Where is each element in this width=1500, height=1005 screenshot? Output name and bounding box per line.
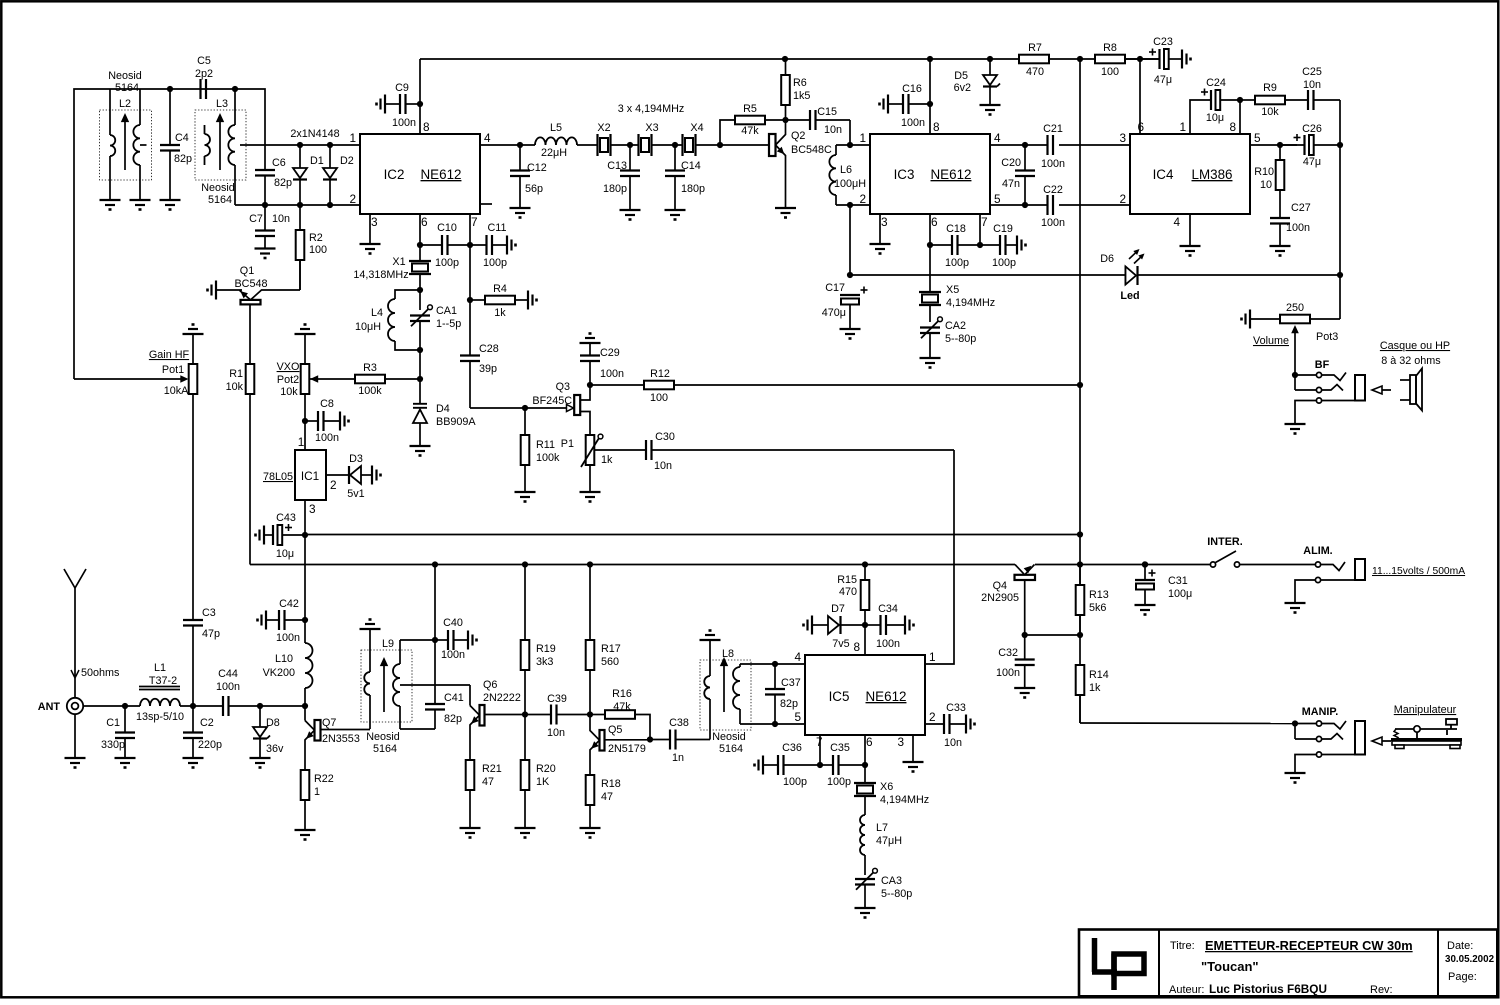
svg-text:C20: C20: [1001, 157, 1021, 169]
svg-text:56p: 56p: [525, 183, 543, 195]
svg-text:4,194MHz: 4,194MHz: [946, 297, 995, 309]
svg-text:R4: R4: [493, 283, 507, 295]
svg-text:560: 560: [601, 656, 619, 668]
svg-text:C9: C9: [395, 82, 409, 94]
svg-text:C40: C40: [443, 617, 463, 629]
svg-text:1: 1: [929, 650, 936, 664]
svg-text:100p: 100p: [483, 257, 507, 269]
svg-text:5164: 5164: [373, 743, 397, 755]
svg-text:100p: 100p: [435, 257, 459, 269]
svg-text:L4: L4: [371, 307, 383, 319]
svg-text:7: 7: [816, 735, 823, 749]
svg-text:L9: L9: [382, 638, 394, 650]
svg-text:C28: C28: [479, 343, 499, 355]
svg-text:5: 5: [794, 710, 801, 724]
svg-text:47μ: 47μ: [1154, 74, 1172, 86]
svg-text:Led: Led: [1120, 290, 1139, 302]
svg-text:C7: C7: [249, 213, 263, 225]
svg-text:C34: C34: [878, 603, 898, 615]
svg-text:4: 4: [994, 131, 1001, 145]
svg-text:10μ: 10μ: [1206, 112, 1224, 124]
svg-text:C39: C39: [547, 693, 567, 705]
svg-text:2: 2: [1119, 192, 1126, 206]
svg-text:CA2: CA2: [945, 320, 966, 332]
svg-text:47: 47: [601, 791, 613, 803]
svg-text:C31: C31: [1168, 575, 1188, 587]
svg-text:C24: C24: [1206, 77, 1226, 89]
svg-text:C19: C19: [993, 223, 1013, 235]
svg-text:5164: 5164: [208, 194, 232, 206]
svg-text:2N2905: 2N2905: [981, 592, 1019, 604]
svg-text:R6: R6: [793, 77, 807, 89]
svg-text:100p: 100p: [945, 257, 969, 269]
svg-text:2N3553: 2N3553: [322, 733, 360, 745]
svg-text:6: 6: [931, 215, 938, 229]
svg-text:T37-2: T37-2: [149, 675, 177, 687]
svg-text:L2: L2: [119, 98, 131, 110]
svg-text:C32: C32: [998, 647, 1018, 659]
svg-text:6v2: 6v2: [954, 82, 971, 94]
svg-text:2N2222: 2N2222: [483, 692, 521, 704]
svg-text:3k3: 3k3: [536, 656, 553, 668]
svg-text:8 à 32 ohms: 8 à 32 ohms: [1381, 355, 1441, 367]
svg-text:Neosid: Neosid: [201, 182, 235, 194]
svg-text:50ohms: 50ohms: [81, 667, 120, 679]
svg-text:3: 3: [881, 215, 888, 229]
svg-text:1: 1: [298, 435, 305, 449]
svg-text:C21: C21: [1043, 123, 1063, 135]
svg-text:C18: C18: [946, 223, 966, 235]
svg-text:36v: 36v: [266, 743, 284, 755]
svg-text:D7: D7: [831, 603, 845, 615]
svg-text:C23: C23: [1153, 36, 1173, 48]
svg-text:R9: R9: [1263, 82, 1277, 94]
svg-text:2x1N4148: 2x1N4148: [290, 128, 339, 140]
svg-text:100: 100: [1101, 66, 1119, 78]
svg-text:C26: C26: [1302, 123, 1322, 135]
svg-text:82p: 82p: [274, 177, 292, 189]
svg-text:Date:: Date:: [1447, 940, 1473, 952]
svg-text:8: 8: [423, 120, 430, 134]
svg-text:C43: C43: [276, 512, 296, 524]
svg-text:470: 470: [839, 586, 857, 598]
svg-text:100: 100: [309, 244, 327, 256]
svg-text:47μ: 47μ: [1303, 156, 1321, 168]
svg-text:1--5p: 1--5p: [436, 318, 461, 330]
svg-text:Neosid: Neosid: [108, 70, 142, 82]
svg-text:100k: 100k: [536, 452, 560, 464]
svg-text:Titre:: Titre:: [1170, 940, 1195, 952]
svg-text:C25: C25: [1302, 66, 1322, 78]
svg-text:C6: C6: [272, 157, 286, 169]
svg-text:Q1: Q1: [240, 265, 254, 277]
svg-text:7: 7: [471, 215, 478, 229]
svg-text:Q3: Q3: [556, 381, 570, 393]
svg-text:Page:: Page:: [1448, 971, 1477, 983]
svg-text:Q2: Q2: [791, 130, 805, 142]
svg-text:C30: C30: [655, 431, 675, 443]
svg-text:INTER.: INTER.: [1207, 536, 1242, 548]
svg-text:4: 4: [794, 650, 801, 664]
svg-text:Manipulateur: Manipulateur: [1394, 704, 1457, 716]
svg-text:VXO: VXO: [277, 361, 300, 373]
svg-text:10k: 10k: [280, 386, 298, 398]
svg-text:1: 1: [1179, 120, 1186, 134]
svg-text:10n: 10n: [824, 124, 842, 136]
svg-text:2: 2: [330, 478, 337, 492]
svg-text:Q6: Q6: [483, 679, 497, 691]
svg-text:IC4: IC4: [1153, 167, 1174, 182]
svg-text:C16: C16: [902, 83, 922, 95]
svg-text:100n: 100n: [1041, 158, 1065, 170]
svg-text:5: 5: [1254, 131, 1261, 145]
svg-text:NE612: NE612: [421, 167, 462, 182]
svg-text:3: 3: [897, 735, 904, 749]
svg-text:180p: 180p: [681, 183, 705, 195]
svg-text:6: 6: [866, 735, 873, 749]
svg-text:D4: D4: [436, 403, 450, 415]
svg-text:C13: C13: [607, 160, 627, 172]
svg-text:1k: 1k: [1089, 682, 1101, 694]
svg-text:Pot2: Pot2: [277, 374, 299, 386]
svg-text:82p: 82p: [174, 153, 192, 165]
svg-text:R12: R12: [650, 368, 670, 380]
svg-text:30.05.2002: 30.05.2002: [1445, 954, 1495, 965]
svg-text:C36: C36: [782, 742, 802, 754]
svg-text:BF: BF: [1315, 359, 1330, 371]
svg-text:NE612: NE612: [866, 689, 907, 704]
svg-text:8: 8: [933, 120, 940, 134]
svg-text:Rev:: Rev:: [1370, 984, 1393, 996]
svg-text:C44: C44: [218, 668, 238, 680]
svg-text:R18: R18: [601, 778, 621, 790]
svg-text:IC2: IC2: [384, 167, 405, 182]
svg-text:C22: C22: [1043, 184, 1063, 196]
svg-text:X1: X1: [392, 256, 405, 268]
svg-text:R10: R10: [1254, 166, 1274, 178]
svg-text:ANT: ANT: [38, 701, 61, 713]
svg-text:47p: 47p: [202, 628, 220, 640]
svg-text:3: 3: [1119, 131, 1126, 145]
svg-text:2N5179: 2N5179: [608, 743, 646, 755]
svg-text:C5: C5: [197, 55, 211, 67]
svg-text:X6: X6: [880, 781, 893, 793]
svg-text:47: 47: [482, 776, 494, 788]
svg-text:8: 8: [1229, 120, 1236, 134]
svg-text:47μH: 47μH: [876, 835, 902, 847]
svg-text:D3: D3: [349, 453, 363, 465]
svg-text:C14: C14: [681, 160, 701, 172]
svg-text:1n: 1n: [672, 752, 684, 764]
svg-text:EMETTEUR-RECEPTEUR CW 30m: EMETTEUR-RECEPTEUR CW 30m: [1205, 938, 1413, 953]
svg-text:R17: R17: [601, 643, 621, 655]
svg-text:10n: 10n: [547, 727, 565, 739]
svg-text:D6: D6: [1100, 253, 1114, 265]
svg-text:R8: R8: [1103, 42, 1117, 54]
svg-text:L6: L6: [840, 164, 852, 176]
svg-text:100n: 100n: [876, 638, 900, 650]
svg-text:R13: R13: [1089, 589, 1109, 601]
svg-text:C29: C29: [600, 347, 620, 359]
svg-text:10kA: 10kA: [164, 385, 189, 397]
svg-text:5v1: 5v1: [347, 488, 364, 500]
svg-text:Volume: Volume: [1253, 335, 1289, 347]
svg-text:10μH: 10μH: [355, 321, 381, 333]
svg-text:10n: 10n: [272, 213, 290, 225]
svg-text:470: 470: [1026, 66, 1044, 78]
svg-text:C35: C35: [830, 742, 850, 754]
svg-text:100n: 100n: [901, 117, 925, 129]
svg-text:Pot1: Pot1: [162, 364, 184, 376]
svg-text:220p: 220p: [198, 739, 222, 751]
svg-text:C11: C11: [487, 222, 506, 234]
svg-text:82p: 82p: [780, 698, 798, 710]
svg-text:100n: 100n: [1041, 217, 1065, 229]
svg-text:14,318MHz: 14,318MHz: [353, 269, 408, 281]
svg-text:100n: 100n: [315, 432, 339, 444]
svg-text:R15: R15: [837, 574, 857, 586]
svg-text:R5: R5: [743, 103, 757, 115]
svg-text:2: 2: [859, 192, 866, 206]
svg-text:100n: 100n: [1286, 222, 1310, 234]
svg-text:L3: L3: [216, 98, 228, 110]
svg-text:13sp-5/10: 13sp-5/10: [136, 711, 184, 723]
svg-text:100p: 100p: [783, 776, 807, 788]
svg-text:1: 1: [859, 131, 866, 145]
svg-text:2: 2: [929, 710, 936, 724]
svg-text:47k: 47k: [613, 701, 631, 713]
svg-text:2: 2: [349, 192, 356, 206]
svg-text:10n: 10n: [654, 460, 672, 472]
svg-text:6: 6: [1137, 120, 1144, 134]
svg-text:100n: 100n: [276, 632, 300, 644]
svg-text:Q4: Q4: [993, 580, 1007, 592]
svg-text:47k: 47k: [741, 125, 759, 137]
svg-text:L7: L7: [876, 822, 888, 834]
svg-text:Auteur:: Auteur:: [1169, 984, 1204, 996]
svg-text:C41: C41: [444, 692, 464, 704]
svg-text:5k6: 5k6: [1089, 602, 1106, 614]
svg-text:180p: 180p: [603, 183, 627, 195]
svg-text:MANIP.: MANIP.: [1302, 706, 1338, 718]
svg-text:250: 250: [1286, 302, 1304, 314]
svg-text:100n: 100n: [600, 368, 624, 380]
svg-text:5--80p: 5--80p: [945, 333, 976, 345]
svg-text:5: 5: [994, 192, 1001, 206]
svg-text:Pot3: Pot3: [1316, 331, 1338, 343]
svg-text:L10: L10: [275, 653, 293, 665]
svg-text:100p: 100p: [827, 776, 851, 788]
svg-text:100k: 100k: [358, 385, 382, 397]
svg-text:5164: 5164: [719, 743, 743, 755]
svg-text:BC548: BC548: [234, 278, 267, 290]
svg-text:330p: 330p: [101, 739, 125, 751]
svg-text:P1: P1: [561, 438, 574, 450]
svg-text:8: 8: [853, 640, 860, 654]
svg-text:R7: R7: [1028, 42, 1042, 54]
svg-text:3: 3: [309, 502, 316, 516]
svg-text:R16: R16: [612, 688, 632, 700]
svg-text:R1: R1: [229, 368, 243, 380]
svg-text:L8: L8: [722, 648, 734, 660]
svg-text:CA3: CA3: [881, 875, 902, 887]
svg-text:C8: C8: [320, 398, 334, 410]
svg-text:3 x 4,194MHz: 3 x 4,194MHz: [618, 103, 685, 115]
svg-text:R20: R20: [536, 763, 556, 775]
svg-text:R22: R22: [314, 773, 334, 785]
svg-text:R19: R19: [536, 643, 556, 655]
svg-text:82p: 82p: [444, 713, 462, 725]
svg-text:BB909A: BB909A: [436, 416, 476, 428]
svg-text:100n: 100n: [392, 117, 416, 129]
svg-text:X2: X2: [597, 122, 610, 134]
svg-text:BF245C: BF245C: [532, 395, 572, 407]
svg-text:C10: C10: [437, 222, 457, 234]
svg-text:L1: L1: [154, 662, 166, 674]
svg-text:100: 100: [650, 392, 668, 404]
svg-text:4: 4: [1173, 215, 1180, 229]
svg-text:11...15volts / 500mA: 11...15volts / 500mA: [1372, 566, 1465, 577]
svg-text:X5: X5: [946, 284, 959, 296]
svg-text:D8: D8: [266, 717, 280, 729]
svg-text:CA1: CA1: [436, 305, 457, 317]
svg-text:100n: 100n: [996, 667, 1020, 679]
svg-text:C42: C42: [279, 598, 299, 610]
svg-text:D5: D5: [954, 70, 968, 82]
svg-text:"Toucan": "Toucan": [1201, 959, 1259, 974]
svg-text:3: 3: [371, 215, 378, 229]
svg-text:Luc Pistorius F6BQU: Luc Pistorius F6BQU: [1209, 982, 1327, 996]
svg-text:10n: 10n: [944, 737, 962, 749]
svg-text:C27: C27: [1291, 202, 1311, 214]
svg-text:10μ: 10μ: [276, 548, 294, 560]
svg-text:5--80p: 5--80p: [881, 888, 912, 900]
svg-text:1: 1: [349, 131, 356, 145]
svg-text:IC1: IC1: [301, 469, 319, 483]
svg-text:IC3: IC3: [894, 167, 915, 182]
svg-text:C15: C15: [817, 106, 837, 118]
svg-text:22μH: 22μH: [541, 147, 567, 159]
svg-text:Q5: Q5: [608, 724, 622, 736]
svg-text:2p2: 2p2: [195, 68, 213, 80]
svg-text:C12: C12: [527, 162, 547, 174]
svg-text:BC548C: BC548C: [791, 144, 832, 156]
svg-text:10k: 10k: [1261, 106, 1279, 118]
svg-text:100n: 100n: [441, 649, 465, 661]
svg-text:VK200: VK200: [263, 667, 295, 679]
svg-text:C4: C4: [175, 132, 189, 144]
svg-text:NE612: NE612: [931, 167, 972, 182]
svg-text:4: 4: [484, 131, 491, 145]
svg-text:Neosid: Neosid: [366, 731, 400, 743]
svg-text:470μ: 470μ: [822, 307, 846, 319]
svg-text:Neosid: Neosid: [712, 731, 746, 743]
svg-text:R21: R21: [482, 763, 502, 775]
svg-text:Casque ou HP: Casque ou HP: [1380, 340, 1450, 352]
svg-text:LM386: LM386: [1192, 167, 1233, 182]
svg-text:X4: X4: [690, 122, 703, 134]
svg-text:R14: R14: [1089, 669, 1109, 681]
svg-text:1k: 1k: [601, 454, 613, 466]
svg-text:39p: 39p: [479, 363, 497, 375]
svg-text:C17: C17: [825, 282, 845, 294]
svg-text:D2: D2: [340, 155, 354, 167]
svg-text:L5: L5: [550, 122, 562, 134]
svg-text:C3: C3: [202, 607, 216, 619]
svg-text:IC5: IC5: [829, 689, 850, 704]
svg-text:1K: 1K: [536, 776, 550, 788]
svg-text:100μ: 100μ: [1168, 588, 1192, 600]
svg-text:47n: 47n: [1002, 178, 1020, 190]
svg-text:5164: 5164: [115, 82, 139, 94]
svg-text:7: 7: [981, 215, 988, 229]
svg-text:10: 10: [1260, 179, 1272, 191]
svg-text:C37: C37: [781, 677, 801, 689]
svg-text:100n: 100n: [216, 681, 240, 693]
svg-text:6: 6: [421, 215, 428, 229]
svg-text:Q7: Q7: [322, 717, 336, 729]
svg-text:R2: R2: [309, 232, 323, 244]
svg-text:1k: 1k: [494, 307, 506, 319]
svg-text:100p: 100p: [992, 257, 1016, 269]
svg-text:100μH: 100μH: [834, 178, 866, 190]
svg-text:C1: C1: [106, 717, 120, 729]
svg-text:ALIM.: ALIM.: [1303, 545, 1332, 557]
svg-text:1k5: 1k5: [793, 90, 810, 102]
svg-text:Gain HF: Gain HF: [149, 349, 190, 361]
svg-text:R11: R11: [536, 439, 555, 451]
svg-text:10k: 10k: [226, 381, 244, 393]
svg-text:X3: X3: [645, 122, 658, 134]
svg-text:10n: 10n: [1303, 79, 1321, 91]
svg-text:7v5: 7v5: [832, 638, 849, 650]
svg-text:78L05: 78L05: [263, 471, 293, 483]
svg-text:D1: D1: [310, 155, 324, 167]
svg-text:C33: C33: [946, 702, 966, 714]
svg-text:4,194MHz: 4,194MHz: [880, 794, 929, 806]
svg-text:C38: C38: [669, 717, 689, 729]
svg-text:1: 1: [314, 786, 320, 798]
svg-text:C2: C2: [200, 717, 214, 729]
svg-text:R3: R3: [363, 362, 377, 374]
